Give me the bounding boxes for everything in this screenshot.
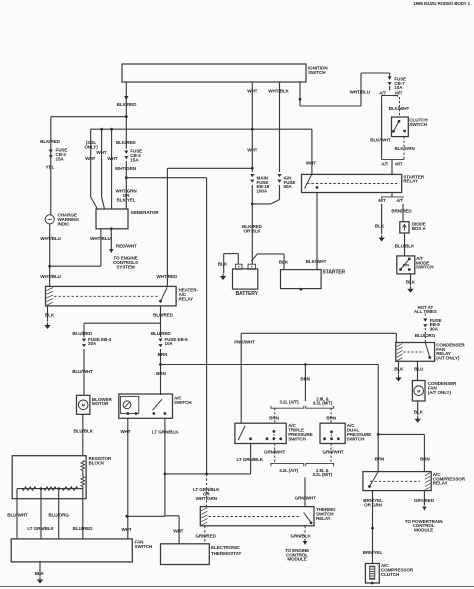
svg-text:WHT: WHT <box>120 429 130 434</box>
svg-text:100A: 100A <box>257 188 268 193</box>
svg-text:BLK/WHT: BLK/WHT <box>306 259 327 264</box>
svg-text:BLU: BLU <box>414 366 424 371</box>
svg-text:GRN/WHT: GRN/WHT <box>264 450 286 455</box>
svg-text:SWITCH: SWITCH <box>409 122 427 127</box>
svg-text:MOTOR: MOTOR <box>92 401 109 406</box>
svg-text:BRN: BRN <box>420 457 430 462</box>
svg-text:BLK: BLK <box>45 312 55 317</box>
svg-text:WHT: WHT <box>173 528 183 533</box>
svg-text:BRN: BRN <box>156 371 166 376</box>
svg-text:SWITCH: SWITCH <box>288 436 306 441</box>
svg-text:THERMOSTAT: THERMOSTAT <box>211 551 242 556</box>
svg-text:P/N: P/N <box>403 262 409 267</box>
svg-text:WHT/RED: WHT/RED <box>156 274 178 279</box>
svg-text:SWITCH: SWITCH <box>347 436 365 441</box>
svg-text:M/T: M/T <box>395 161 403 166</box>
svg-text:WHT: WHT <box>107 156 117 161</box>
svg-text:A/T: A/T <box>381 161 388 166</box>
svg-text:SWITCH: SWITCH <box>308 70 326 75</box>
svg-text:SWITCH: SWITCH <box>174 400 192 405</box>
svg-text:CLUTCH: CLUTCH <box>381 572 400 577</box>
svg-text:BLU/BLK: BLU/BLK <box>395 244 415 249</box>
svg-text:BLK/YEL: BLK/YEL <box>117 198 136 203</box>
svg-text:3.2L (A/T): 3.2L (A/T) <box>280 400 300 405</box>
svg-text:INDIC: INDIC <box>58 221 71 226</box>
svg-text:WHT: WHT <box>96 150 106 155</box>
svg-text:3.2L (M/T): 3.2L (M/T) <box>313 472 333 477</box>
svg-text:BLK: BLK <box>375 224 385 229</box>
svg-text:LT GRN/BLK: LT GRN/BLK <box>152 430 179 435</box>
svg-text:ELECTRONIC: ELECTRONIC <box>211 545 241 550</box>
svg-text:BLK: BLK <box>35 571 45 576</box>
svg-text:WHT/BLU: WHT/BLU <box>40 274 61 279</box>
svg-text:SYSTEM: SYSTEM <box>116 264 135 269</box>
svg-text:BLK/RED: BLK/RED <box>116 140 136 145</box>
svg-text:WHT/GRN: WHT/GRN <box>115 166 137 171</box>
svg-text:60A: 60A <box>284 184 293 189</box>
svg-text:LT GRN/BLK: LT GRN/BLK <box>237 457 264 462</box>
svg-text:BLU/RED: BLU/RED <box>73 526 93 531</box>
svg-text:BLU/ORG: BLU/ORG <box>415 333 436 338</box>
svg-text:20A: 20A <box>88 341 97 346</box>
svg-text:3.2L (A/T): 3.2L (A/T) <box>279 468 299 473</box>
svg-text:15A: 15A <box>130 157 139 162</box>
svg-text:GRN/BLK: GRN/BLK <box>290 533 311 538</box>
svg-text:ALL TIMES: ALL TIMES <box>414 309 437 314</box>
svg-text:ONLY): ONLY) <box>84 145 98 150</box>
svg-text:BLK: BLK <box>279 259 289 264</box>
svg-text:BLOCK: BLOCK <box>89 460 106 465</box>
svg-text:RELAY: RELAY <box>433 481 448 486</box>
svg-text:WHT: WHT <box>247 89 257 94</box>
svg-text:RELAY: RELAY <box>403 179 418 184</box>
svg-text:GENERATOR: GENERATOR <box>131 210 160 215</box>
svg-text:BRN: BRN <box>375 457 385 462</box>
svg-text:WHT/BLU: WHT/BLU <box>350 90 371 95</box>
svg-text:BLK/RED: BLK/RED <box>117 102 137 107</box>
svg-text:WHT/BLU: WHT/BLU <box>40 236 61 241</box>
svg-text:WHT/GRN: WHT/GRN <box>196 496 218 501</box>
svg-text:LT GRN/BLK: LT GRN/BLK <box>27 526 54 531</box>
svg-text:M/T: M/T <box>378 198 386 203</box>
svg-text:SWITCH: SWITCH <box>416 265 434 270</box>
svg-text:BLK/GRN: BLK/GRN <box>394 146 415 151</box>
svg-text:RELAY: RELAY <box>316 516 331 521</box>
svg-text:BATTERY: BATTERY <box>236 291 259 297</box>
svg-text:BLK/WHT: BLK/WHT <box>389 106 410 111</box>
svg-text:RED/WHT: RED/WHT <box>116 243 137 248</box>
svg-text:WHT: WHT <box>306 161 316 166</box>
svg-text:10A: 10A <box>394 85 403 90</box>
svg-text:GRN/WHT: GRN/WHT <box>295 496 317 501</box>
svg-text:BLK: BLK <box>218 261 228 266</box>
svg-text:GRN/WHT: GRN/WHT <box>322 450 344 455</box>
svg-text:15A: 15A <box>56 156 65 161</box>
svg-text:BLK: BLK <box>414 410 424 415</box>
svg-text:10A: 10A <box>165 341 174 346</box>
svg-text:BLK: BLK <box>406 279 416 284</box>
svg-text:BLU/RED: BLU/RED <box>151 331 171 336</box>
svg-text:BRN/RED: BRN/RED <box>391 209 412 214</box>
svg-text:BLU/RED: BLU/RED <box>153 312 173 317</box>
svg-text:WHT: WHT <box>247 148 257 153</box>
svg-text:WHT/BLK: WHT/BLK <box>268 89 289 94</box>
svg-text:A/T: A/T <box>379 91 386 96</box>
svg-text:3.2L (M/T): 3.2L (M/T) <box>313 401 333 406</box>
svg-text:BRN: BRN <box>269 415 279 420</box>
svg-text:BOX A: BOX A <box>412 226 427 231</box>
svg-text:SWITCH: SWITCH <box>135 544 153 549</box>
svg-text:BRN: BRN <box>300 377 310 382</box>
svg-text:M/T: M/T <box>395 91 403 96</box>
svg-text:MODULE: MODULE <box>414 528 433 533</box>
svg-text:OR BLK: OR BLK <box>243 228 261 233</box>
svg-text:RELAY: RELAY <box>179 296 194 301</box>
svg-text:A/T: A/T <box>396 198 403 203</box>
svg-text:(A/T ONLY): (A/T ONLY) <box>436 356 460 361</box>
svg-text:BRN: BRN <box>158 352 168 357</box>
svg-text:BLU/BLK: BLU/BLK <box>73 429 93 434</box>
svg-text:WHT: WHT <box>85 156 95 161</box>
svg-text:1998 ISUZU RODEO BODY 1: 1998 ISUZU RODEO BODY 1 <box>413 1 470 6</box>
svg-text:BLK: BLK <box>394 366 404 371</box>
svg-text:30A: 30A <box>430 326 439 331</box>
svg-text:WHT/BLU: WHT/BLU <box>90 236 111 241</box>
svg-text:GRN/RED: GRN/RED <box>195 533 216 538</box>
svg-text:BLU/WHT: BLU/WHT <box>7 512 28 517</box>
svg-text:BLK/WHT: BLK/WHT <box>370 138 391 143</box>
svg-text:BLK/RED: BLK/RED <box>40 139 60 144</box>
svg-text:GRY/RED: GRY/RED <box>414 498 435 503</box>
svg-text:(A/T ONLY): (A/T ONLY) <box>428 390 452 395</box>
svg-text:BRN: BRN <box>326 415 336 420</box>
svg-text:BLU/RED: BLU/RED <box>72 331 92 336</box>
svg-text:BRN/YEL: BRN/YEL <box>363 550 383 555</box>
svg-text:PNK/WHT: PNK/WHT <box>234 339 255 344</box>
svg-text:MODULE: MODULE <box>287 557 306 562</box>
svg-text:WHT: WHT <box>121 527 131 532</box>
svg-text:STARTER: STARTER <box>323 270 346 276</box>
svg-text:BLU/WHT: BLU/WHT <box>72 369 93 374</box>
svg-text:OR GRN: OR GRN <box>364 503 383 508</box>
svg-text:BLU/ORG: BLU/ORG <box>48 512 69 517</box>
svg-text:YEL: YEL <box>46 164 55 169</box>
